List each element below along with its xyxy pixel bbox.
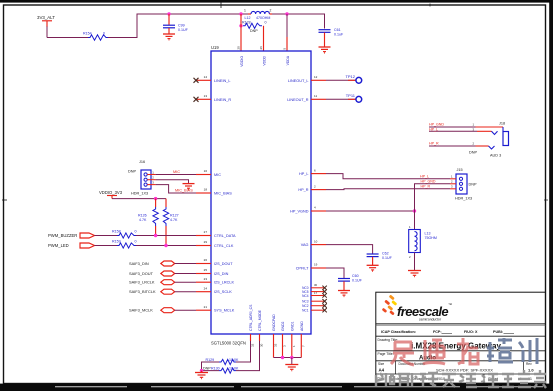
svg-text:12: 12	[314, 75, 318, 79]
svg-text:2: 2	[270, 9, 272, 13]
wire LINEOUT_R to TP11	[326, 98, 356, 100]
node junction VDDIO tap	[239, 12, 242, 15]
inductor L12 470OHM	[244, 9, 272, 21]
wire R159 to CTRL_CLK	[136, 245, 196, 247]
ground at J16 pin2	[183, 184, 195, 191]
watermark blue char 5	[519, 338, 537, 364]
svg-text:30: 30	[260, 343, 264, 347]
pin I2S_LRCLK 23	[196, 277, 235, 285]
title block page title	[378, 352, 437, 362]
off-page connector SAIF3_MCLK	[129, 308, 175, 313]
svg-text:SYS_MCLK: SYS_MCLK	[214, 309, 235, 313]
wire R158 to CTRL_DATA	[136, 235, 196, 237]
wire MIC net	[156, 170, 196, 175]
svg-text:DNP: DNP	[469, 182, 477, 186]
ground below L13	[408, 271, 421, 278]
pin NC2 9 no-connect	[302, 304, 327, 309]
svg-text:NC1: NC1	[302, 309, 309, 313]
pin GND1 1	[290, 321, 296, 357]
wire HP_L from U19 to J15	[326, 174, 450, 179]
pin I2S_SCLK 24	[196, 286, 232, 294]
title block	[376, 292, 546, 383]
svg-text:AUD 3: AUD 3	[490, 153, 501, 157]
svg-text:LINEIN_R: LINEIN_R	[214, 98, 231, 102]
title block size and document number	[378, 362, 534, 373]
wire HP_GND to J18 pin1	[429, 123, 476, 127]
pin NC4 17 no-connect	[302, 291, 327, 298]
ground below C61	[319, 47, 331, 54]
svg-text:11: 11	[314, 94, 317, 98]
svg-text:Size: Size	[378, 362, 384, 366]
svg-text:CTRL_CLK: CTRL_CLK	[214, 244, 234, 248]
svg-text:NC3: NC3	[302, 300, 309, 304]
svg-text:NC4: NC4	[302, 294, 309, 298]
svg-text:17: 17	[314, 291, 318, 295]
svg-text:SAIF3_LRCLK: SAIF3_LRCLK	[129, 280, 155, 285]
svg-text:C61: C61	[334, 28, 341, 32]
ground below R129 R130	[195, 371, 208, 380]
node junction C99 tap	[167, 12, 170, 15]
test point TP11	[346, 93, 362, 102]
svg-text:29: 29	[204, 240, 208, 244]
svg-text:21: 21	[204, 305, 208, 309]
svg-text:4.7K: 4.7K	[170, 218, 178, 222]
svg-text:26: 26	[204, 258, 208, 262]
svg-text:470OHM: 470OHM	[256, 16, 270, 20]
pin MIC_BIAS 18	[196, 188, 232, 196]
ground below C99	[163, 34, 175, 41]
pin VDDIO 20	[237, 46, 245, 67]
svg-text:SAIF3_DOUT: SAIF3_DOUT	[129, 271, 154, 276]
pin CTRL_MODE 30 bottom	[258, 309, 264, 347]
node junction GND1	[290, 356, 293, 359]
pin VDDD 26	[259, 46, 267, 66]
inductor L13 75OHM	[409, 225, 437, 259]
svg-text:Rev: Rev	[526, 362, 532, 366]
wire HP_GND up to J15 pin2	[415, 184, 451, 211]
off-page connector SAIF3_DOUT	[129, 271, 175, 276]
svg-text:33: 33	[274, 343, 278, 347]
svg-text:24: 24	[204, 286, 208, 290]
svg-text:LINEOUT_L: LINEOUT_L	[288, 79, 309, 83]
wire R129 to ground node	[202, 362, 220, 371]
svg-text:0.1uF: 0.1uF	[334, 33, 344, 37]
wire LINEOUT_L to TP12	[326, 79, 356, 81]
svg-text:LINEOUT_R: LINEOUT_R	[287, 98, 309, 102]
op IC U19 SGTL5000 body	[211, 45, 311, 346]
svg-text:0.1UF: 0.1UF	[382, 256, 393, 260]
svg-text:13: 13	[204, 94, 208, 98]
pin GNDCPAD 33	[272, 314, 278, 358]
title block text ICAP row	[381, 330, 514, 334]
wire CTRL_ADR0_CS to R129	[236, 341, 251, 362]
off-page connector SAIF3_DIN	[129, 261, 175, 266]
ground below U19	[285, 358, 298, 372]
svg-text:10: 10	[314, 239, 318, 243]
pin I2S_DIN 25	[196, 268, 229, 276]
svg-text:SGTL5000 32QFN: SGTL5000 32QFN	[211, 341, 246, 346]
svg-text:R129: R129	[206, 358, 215, 362]
capacitor C60 0.1UF	[338, 274, 363, 290]
svg-text:GNDCPAD: GNDCPAD	[272, 314, 276, 331]
resistor R158 0	[112, 230, 137, 239]
wire HP_R to J18 pin2	[429, 142, 476, 146]
power flag 3V3_ALT	[37, 15, 55, 27]
wire SAIF3_DOUT to I2S_DIN	[175, 273, 196, 275]
svg-text:14: 14	[204, 75, 208, 79]
svg-text:DNP: DNP	[203, 366, 211, 370]
svg-text:I2S_DIN: I2S_DIN	[214, 272, 229, 276]
pin CPFILT 19	[296, 263, 326, 271]
off-page connector SAIF3_LRCLK	[129, 280, 175, 285]
svg-text:0.1UF: 0.1UF	[352, 279, 363, 283]
svg-text:R127: R127	[170, 214, 179, 218]
wire R154 to top rail	[108, 14, 248, 38]
svg-text:CTRL_ADR0_CS: CTRL_ADR0_CS	[249, 304, 253, 331]
svg-text:CTRL_MODE: CTRL_MODE	[258, 309, 262, 331]
node junction R126 tap	[154, 197, 157, 200]
svg-text:I2S_LRCLK: I2S_LRCLK	[214, 281, 235, 285]
svg-text:18: 18	[204, 188, 208, 192]
resistor R126 4.7K	[138, 199, 158, 236]
watermark blue char 4	[487, 338, 513, 362]
svg-text:26: 26	[259, 46, 263, 50]
test point TP12	[345, 74, 361, 83]
svg-text:J15: J15	[457, 168, 463, 172]
svg-text:HP_L: HP_L	[429, 128, 438, 132]
node junction R126 bottom	[154, 234, 157, 237]
wire SAIF3_LRCLK to I2S_LRCLK	[175, 281, 196, 283]
svg-text:L13: L13	[425, 232, 431, 236]
svg-text:MIC: MIC	[214, 173, 221, 177]
node junction HP_VGND	[413, 209, 416, 212]
svg-text:MIC_BIAS: MIC_BIAS	[214, 192, 232, 196]
audio jack J18 AUD3 DNP	[469, 122, 509, 158]
resistor R154 0	[83, 32, 108, 41]
pin LINEIN_R 13 no-connect	[194, 94, 232, 102]
svg-text:R158: R158	[112, 230, 121, 234]
pin CTRL_CLK 29	[196, 240, 234, 248]
wire CPFILT to C60	[326, 268, 344, 278]
wire PWM_BUZZER to R158	[95, 235, 118, 237]
svg-text:HP_GND: HP_GND	[429, 123, 444, 127]
svg-text:1: 1	[244, 9, 246, 13]
svg-text:TP11: TP11	[346, 93, 356, 98]
ground below C60	[338, 291, 350, 298]
pin MIC 16	[196, 169, 221, 177]
svg-text:C62: C62	[382, 252, 389, 256]
svg-text:R130: R130	[211, 366, 220, 370]
svg-text:0: 0	[103, 32, 105, 36]
svg-text:25: 25	[204, 268, 208, 272]
pin HP_VGND 4	[290, 206, 326, 214]
wire VDDD stub	[263, 26, 265, 51]
svg-text:A4: A4	[379, 368, 385, 373]
svg-text:C60: C60	[352, 274, 359, 278]
svg-text:HP_L: HP_L	[299, 172, 309, 176]
svg-text:1.0: 1.0	[528, 368, 534, 373]
svg-text:R126: R126	[138, 214, 147, 218]
wire rail after L12	[272, 14, 325, 29]
node junction GND2	[281, 356, 284, 359]
wire MIC_BIAS net	[156, 185, 196, 193]
svg-text:HP_GND: HP_GND	[421, 180, 436, 184]
svg-text:23: 23	[204, 277, 208, 281]
svg-text:VDDA: VDDA	[286, 55, 290, 65]
wire PWM_LED to R159	[95, 245, 118, 247]
pin NC0 30 no-connect	[302, 283, 327, 290]
svg-text:R159: R159	[112, 240, 121, 244]
svg-text:SAIF3_MCLK: SAIF3_MCLK	[129, 308, 153, 313]
wire VDDA stub	[286, 14, 288, 37]
svg-text:DNP: DNP	[469, 151, 477, 155]
pin HP_L 6	[299, 168, 326, 176]
resistor R159 0	[112, 240, 137, 249]
wire R130 to ground node	[202, 370, 220, 372]
pin VAG 10	[301, 239, 326, 247]
svg-text:TP12: TP12	[345, 74, 355, 79]
svg-text:L12: L12	[245, 16, 251, 20]
wire SAIF3_DIN to I2S_DOUT	[175, 263, 196, 265]
svg-text:U19: U19	[211, 45, 219, 50]
node junction VDDA tap	[285, 12, 288, 15]
svg-text:4.7K: 4.7K	[139, 218, 147, 222]
svg-text:PUBI:: PUBI:	[493, 330, 503, 334]
svg-text:FCP:: FCP:	[433, 330, 442, 334]
svg-text:MIC_BIAS: MIC_BIAS	[175, 189, 193, 193]
svg-text:10.0K: 10.0K	[229, 358, 239, 362]
wire VAG to C62	[326, 245, 373, 254]
svg-text:19: 19	[314, 263, 318, 267]
svg-text:HP_VGND: HP_VGND	[290, 210, 309, 214]
svg-text:SAIF3_DIN: SAIF3_DIN	[129, 261, 149, 266]
pin NC3 15 no-connect	[302, 299, 327, 304]
wire J16 pin2 to ground	[156, 180, 189, 184]
svg-text:™: ™	[448, 302, 452, 307]
watermark red char 2	[423, 340, 445, 364]
wire SAIF3_BITCLK to I2S_SCLK	[175, 291, 196, 293]
off-page connector PWM_LED	[48, 243, 95, 248]
off-page connector PWM_BUZZER	[48, 233, 95, 238]
svg-text:75OHM: 75OHM	[425, 236, 437, 240]
svg-text:SCH-XXXXX PDF: SPF-XXXXX: SCH-XXXXX PDF: SPF-XXXXX	[436, 368, 493, 373]
ground below C62	[367, 265, 379, 272]
pin NC5 28 no-connect	[302, 289, 327, 294]
svg-text:SAIF3_BITCLK: SAIF3_BITCLK	[129, 289, 156, 294]
svg-text:CTRL_DATA: CTRL_DATA	[214, 234, 236, 238]
svg-text:R128: R128	[242, 20, 251, 24]
svg-text:CPFILT: CPFILT	[296, 267, 309, 271]
wire CTRL_MODE to R130	[236, 341, 260, 371]
pin LINEOUT_L 12	[288, 75, 326, 83]
svg-text:27: 27	[204, 230, 208, 234]
pin LINEIN_L 14 no-connect	[194, 75, 231, 83]
freescale logo	[382, 295, 452, 322]
svg-text:VDDD: VDDD	[263, 55, 267, 65]
svg-text:I2S_DOUT: I2S_DOUT	[214, 262, 233, 266]
pin AGND 7	[300, 321, 306, 358]
svg-text:C99: C99	[178, 24, 185, 28]
off-page connector SAIF3_BITCLK	[129, 289, 175, 294]
pin SYS_MCLK 21	[196, 305, 235, 313]
resistor R127 4.7K	[163, 199, 178, 246]
pin I2S_DOUT 26	[196, 258, 233, 266]
svg-text:VDDIO_3V3: VDDIO_3V3	[99, 190, 123, 195]
watermark gray bottom characters	[376, 370, 546, 388]
svg-text:semiconductor: semiconductor	[419, 318, 442, 322]
svg-text:I2S_SCLK: I2S_SCLK	[214, 290, 232, 294]
svg-text:PWM_BUZZER: PWM_BUZZER	[48, 233, 77, 238]
pin GND2 3	[281, 321, 287, 357]
wire SAIF3_MCLK to SYS_MCLK	[175, 309, 196, 311]
svg-text:MIC: MIC	[173, 170, 180, 174]
svg-text:LINEIN_L: LINEIN_L	[214, 79, 230, 83]
node junction ground R129 R130	[200, 369, 203, 372]
watermark red char 1	[391, 342, 414, 365]
wire HP_VGND down to L13	[414, 211, 416, 230]
svg-text:NC2: NC2	[302, 304, 309, 308]
svg-text:HP_R: HP_R	[298, 188, 308, 192]
wire VDDIO stub	[240, 14, 242, 51]
wire GND bus under U19	[274, 357, 302, 359]
svg-text:HDR_1X3: HDR_1X3	[455, 196, 472, 200]
svg-text:0.1UF: 0.1UF	[178, 28, 189, 32]
pin CTRL_ADR0_CS 32 bottom	[249, 304, 255, 347]
svg-text:HP_L: HP_L	[420, 175, 429, 179]
svg-text:HDR_1X3: HDR_1X3	[131, 191, 148, 195]
svg-text:30: 30	[314, 283, 318, 287]
pin VDDA 5	[283, 48, 291, 66]
svg-text:FIUO: X: FIUO: X	[464, 330, 478, 334]
svg-text:0: 0	[135, 240, 137, 244]
wire VDDIO_3V3 rail to pullups	[112, 198, 166, 200]
svg-text:VDDIO: VDDIO	[240, 56, 244, 67]
wire 3V3_ALT to R154	[46, 27, 48, 38]
svg-text:GND1: GND1	[290, 321, 294, 331]
pin NC1 1 no-connect	[302, 308, 327, 313]
svg-text:HP_R: HP_R	[421, 185, 431, 189]
resistor R129 10.0K	[206, 358, 239, 365]
svg-text:20: 20	[237, 46, 241, 50]
wire HP_VGND from U19	[326, 210, 415, 212]
capacitor C99 0.1UF	[163, 14, 189, 34]
pin HP_R 2	[298, 184, 326, 192]
wire L13 to ground	[414, 253, 416, 271]
svg-text:PWM_LED: PWM_LED	[48, 243, 69, 248]
svg-text:DNP: DNP	[250, 29, 258, 33]
svg-text:R154: R154	[83, 32, 92, 36]
connector J15 HDR_1X3 DNP	[450, 168, 477, 200]
svg-text:HP_R: HP_R	[429, 142, 439, 146]
capacitor C61 0.1uF	[319, 28, 344, 47]
svg-text:GND2: GND2	[281, 321, 285, 331]
resistor R130 10.0K DNP	[203, 366, 239, 373]
wire HP_L to J18 pin3	[429, 128, 477, 132]
svg-text:32: 32	[251, 343, 255, 347]
svg-text:0: 0	[135, 230, 137, 234]
resistor R128 0 DNP bypass	[239, 20, 266, 32]
svg-text:DNP: DNP	[128, 170, 136, 174]
watermark red char 3	[457, 338, 478, 364]
node junction R127 bottom	[164, 244, 167, 247]
svg-text:16: 16	[204, 169, 208, 173]
svg-text:Page Title:: Page Title:	[378, 352, 394, 356]
svg-text:10.0K: 10.0K	[229, 366, 239, 370]
title block drawing title	[378, 338, 502, 351]
pin LINEOUT_R 11	[287, 94, 326, 102]
svg-text:J16: J16	[139, 160, 145, 164]
pin CTRL_DATA 27	[196, 230, 236, 238]
power flag VDDIO_3V3	[99, 190, 123, 199]
svg-text:AGND: AGND	[300, 321, 304, 331]
svg-text:J18: J18	[499, 122, 505, 126]
capacitor C62 0.1UF	[367, 252, 393, 266]
svg-text:VAG: VAG	[301, 243, 309, 247]
svg-text:0: 0	[265, 20, 267, 24]
svg-text:ICAP Classification:: ICAP Classification:	[381, 330, 416, 334]
svg-text:3V3_ALT: 3V3_ALT	[37, 15, 55, 20]
wire HP_R from U19 to J15	[326, 188, 450, 191]
connector J16 HDR_1X3 DNP	[128, 160, 156, 195]
title block date row	[378, 377, 532, 382]
